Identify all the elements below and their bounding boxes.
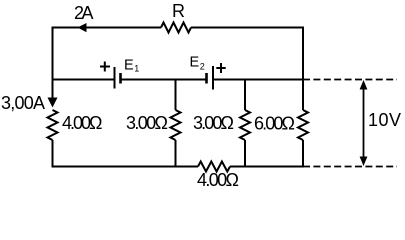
- svg-text:2A: 2A: [74, 3, 94, 23]
- svg-text:3,00A: 3,00A: [1, 93, 45, 113]
- svg-text:E: E: [190, 55, 200, 71]
- svg-text:1: 1: [134, 64, 139, 74]
- node dashed extension top (net of middle wire): [303, 79, 397, 81]
- wire branch vertical at x=175.5 upper: [175, 80, 177, 111]
- wire branch vertical at x=245 lower: [244, 140, 246, 168]
- current arrow 2A (left-pointing arrowhead on top wire): [78, 23, 87, 32]
- svg-text:2: 2: [200, 62, 205, 72]
- wire branch vertical at x=175.5 lower: [175, 140, 177, 168]
- svg-text:E: E: [124, 58, 134, 74]
- resistor R4 6.00 ohm (zigzag on right wire): [298, 110, 308, 140]
- battery E2 long plate (+): [212, 66, 214, 90]
- wire middle horizontal center segment: [122, 79, 206, 81]
- svg-text:6.00Ω: 6.00Ω: [254, 114, 295, 134]
- svg-text:3.00Ω: 3.00Ω: [193, 113, 234, 133]
- resistor R1 4.00 ohm (left vertical zigzag): [48, 110, 58, 140]
- resistor R (top): [161, 23, 191, 33]
- voltage arrow 10V (double-headed vertical): [360, 80, 368, 166]
- wire middle horizontal left segment: [52, 79, 114, 81]
- current arrow 3,00A (down-pointing arrowhead on left wire): [48, 98, 58, 108]
- node dashed extension bottom (net of bottom wire): [303, 166, 397, 168]
- plus sign of E1: [100, 62, 110, 72]
- resistor R2 3.00 ohm (zigzag): [171, 110, 181, 140]
- wire bottom left segment: [53, 166, 199, 168]
- wire bottom right segment: [230, 166, 303, 168]
- battery E1 long plate (+): [114, 67, 116, 89]
- wire left vertical middle (to arrow): [52, 80, 54, 104]
- wire top left segment: [53, 27, 162, 29]
- wire middle horizontal right segment: [214, 79, 303, 81]
- battery E1 short plate: [119, 73, 122, 84]
- battery E2 short plate: [205, 73, 208, 84]
- wire right vertical upper: [302, 27, 304, 111]
- svg-text:R: R: [172, 1, 185, 21]
- wire branch vertical at x=245 upper: [244, 80, 246, 111]
- wire left vertical lower: [52, 140, 54, 168]
- wire left vertical upper: [52, 27, 54, 81]
- svg-text:3.00Ω: 3.00Ω: [126, 113, 168, 133]
- svg-text:4.00Ω: 4.00Ω: [62, 113, 103, 133]
- svg-text:4.00Ω: 4.00Ω: [197, 170, 239, 190]
- resistor R3 3.00 ohm (zigzag): [240, 110, 250, 140]
- plus sign of E2: [216, 63, 225, 73]
- svg-text:10V: 10V: [368, 110, 401, 130]
- resistor R5 4.00 ohm (bottom horizontal zigzag): [198, 162, 230, 172]
- wire right vertical lower: [302, 140, 304, 168]
- wire top right segment: [191, 27, 303, 29]
